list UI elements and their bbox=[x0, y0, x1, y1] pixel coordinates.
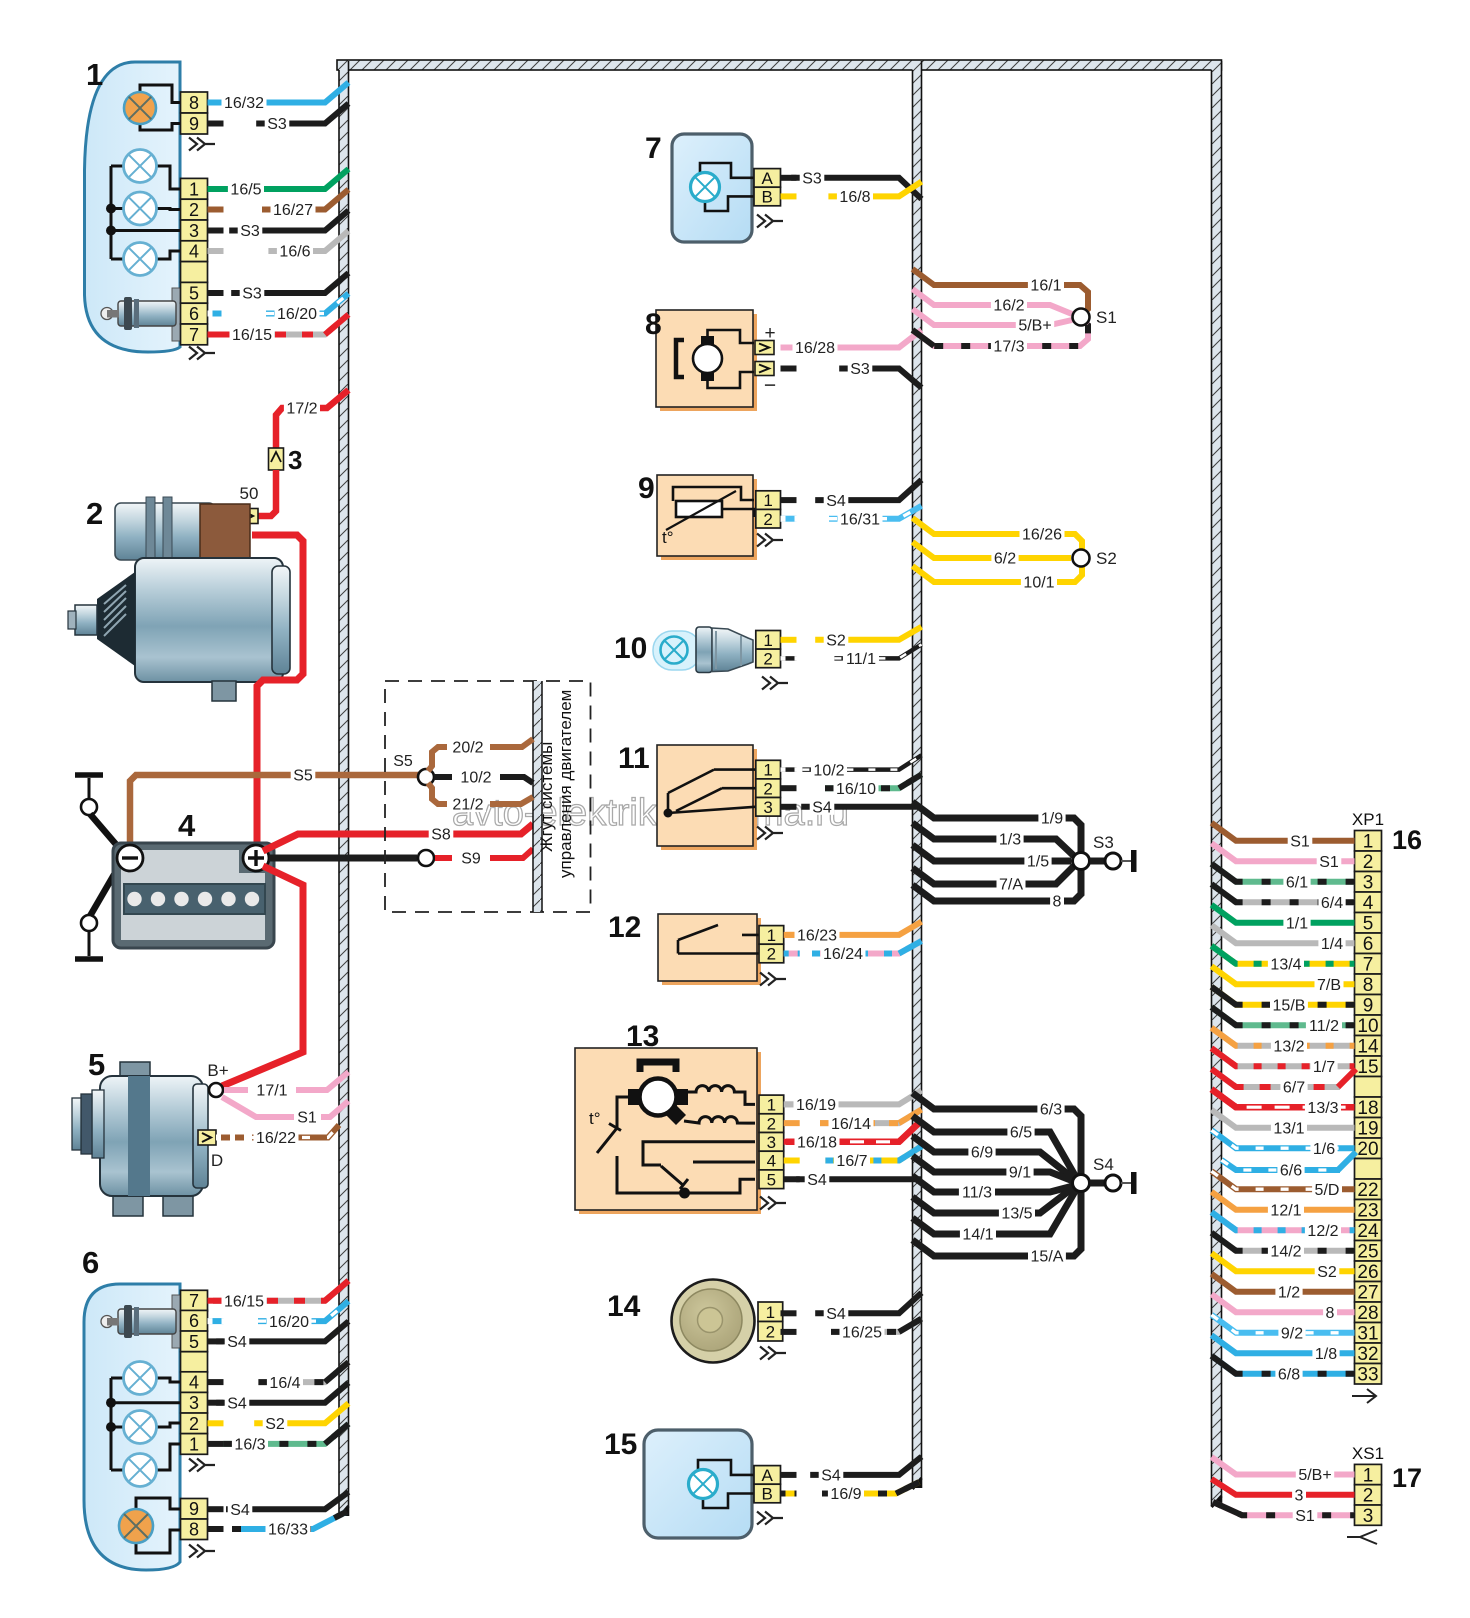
svg-text:S1: S1 bbox=[297, 1110, 317, 1127]
svg-text:9: 9 bbox=[189, 114, 199, 134]
svg-text:2: 2 bbox=[189, 1414, 199, 1434]
ground pin S4 bbox=[1121, 1172, 1137, 1194]
svg-text:17/1: 17/1 bbox=[256, 1083, 287, 1100]
wire S3 to ground bbox=[1090, 858, 1105, 865]
wire 7/B xp1-8 bbox=[1212, 966, 1355, 984]
tail lamp assembly 6 body bbox=[84, 1284, 180, 1570]
harness top bar bbox=[337, 60, 1222, 70]
motor symbol comp8 bbox=[676, 330, 754, 388]
wire 16/19 bbox=[785, 1090, 922, 1104]
wire 20/2 bbox=[428, 739, 533, 771]
label 1/6 xp1 bbox=[1310, 1138, 1337, 1158]
svg-text:A: A bbox=[762, 1466, 774, 1485]
svg-text:20/2: 20/2 bbox=[452, 740, 483, 757]
wire 13/5 bbox=[913, 1187, 1075, 1213]
svg-text:S2: S2 bbox=[1096, 549, 1117, 568]
wire S1 alt bbox=[222, 1097, 294, 1117]
wire 1/2 xp1-27 bbox=[1212, 1274, 1355, 1292]
wire S3 c7 bbox=[791, 178, 921, 199]
svg-text:1/6: 1/6 bbox=[1313, 1141, 1335, 1158]
label 16/7 bbox=[834, 1151, 870, 1171]
svg-text:7: 7 bbox=[1363, 955, 1374, 976]
switch symbol comp13 bbox=[589, 1097, 755, 1199]
svg-text:S1: S1 bbox=[1096, 308, 1117, 327]
label S1 xs1 bbox=[1293, 1505, 1318, 1525]
wire S3 pin3 bbox=[229, 211, 348, 231]
svg-text:6: 6 bbox=[82, 1245, 99, 1280]
label 14/2 xp1 bbox=[1268, 1241, 1304, 1261]
wire S1 xp1-1 bbox=[1212, 823, 1355, 841]
wire stub S3 c7 bbox=[781, 175, 797, 181]
svg-text:6/4: 6/4 bbox=[1321, 895, 1343, 912]
svg-text:5/B+: 5/B+ bbox=[1018, 318, 1051, 335]
label 6/9 bbox=[968, 1142, 995, 1162]
lamp 4 comp1 bbox=[124, 243, 157, 276]
switch 12 shadow bbox=[662, 918, 761, 985]
svg-text:4: 4 bbox=[189, 242, 199, 262]
svg-text:12/1: 12/1 bbox=[1270, 1202, 1301, 1219]
svg-text:S2: S2 bbox=[265, 1416, 285, 1433]
label 15/B xp1 bbox=[1270, 995, 1308, 1015]
connector pins comp6 main group bbox=[181, 1290, 208, 1454]
wire S4 c6p3 bbox=[216, 1383, 348, 1403]
label S4 c6p9 bbox=[228, 1499, 253, 1519]
label 16/10 bbox=[834, 778, 879, 798]
svg-text:16/33: 16/33 bbox=[268, 1522, 308, 1539]
wire S3 pin5 bbox=[231, 273, 348, 293]
svg-text:17: 17 bbox=[1392, 1463, 1422, 1493]
wire stub 16/22 bbox=[216, 1135, 246, 1141]
label 6/3 bbox=[1037, 1099, 1064, 1119]
wire stub S2 c10 bbox=[781, 637, 797, 643]
svg-text:15/A: 15/A bbox=[1031, 1249, 1064, 1266]
wire 17/2 red riser bbox=[276, 408, 290, 450]
wire 13/3 xp1-18 bbox=[1212, 1089, 1355, 1107]
svg-text:7/B: 7/B bbox=[1317, 977, 1341, 994]
label 1/1 xp1 bbox=[1283, 913, 1310, 933]
connector pins comp1 main group bbox=[181, 178, 208, 345]
lamp 2 comp6 bbox=[124, 1411, 157, 1444]
svg-text:27: 27 bbox=[1357, 1283, 1378, 1304]
wire stub S3 c8 bbox=[781, 366, 797, 372]
junction dots comp1 bbox=[106, 204, 116, 214]
svg-text:16/32: 16/32 bbox=[224, 95, 264, 112]
svg-text:23: 23 bbox=[1357, 1201, 1378, 1222]
label 8 s3 bbox=[1050, 891, 1064, 911]
svg-text:3: 3 bbox=[767, 1133, 776, 1152]
svg-text:1/2: 1/2 bbox=[1278, 1284, 1300, 1301]
resistor symbol comp9 bbox=[662, 487, 754, 547]
svg-text:S3: S3 bbox=[240, 223, 260, 240]
svg-text:S9: S9 bbox=[461, 851, 481, 868]
starter 2 bbox=[68, 497, 290, 701]
wire stub 16/25 bbox=[781, 1329, 797, 1335]
svg-text:16/1: 16/1 bbox=[1030, 278, 1061, 295]
svg-text:8: 8 bbox=[189, 93, 199, 113]
svg-text:16/20: 16/20 bbox=[269, 1314, 309, 1331]
label S3 c8 bbox=[848, 359, 873, 379]
label 6/8 xp1 bbox=[1275, 1364, 1302, 1384]
node S9 bbox=[418, 850, 434, 866]
sensor 9 shadow bbox=[661, 479, 757, 560]
svg-text:6/7: 6/7 bbox=[1283, 1080, 1305, 1097]
svg-text:14: 14 bbox=[1357, 1037, 1379, 1058]
label 10/2 c11 bbox=[811, 760, 847, 780]
wire stub S4 c14 bbox=[781, 1310, 797, 1316]
svg-text:16/24: 16/24 bbox=[823, 946, 863, 963]
svg-text:S3: S3 bbox=[1093, 833, 1114, 852]
svg-text:3: 3 bbox=[763, 798, 772, 817]
label 13/1 xp1 bbox=[1271, 1118, 1307, 1138]
switch 12 body bbox=[658, 914, 757, 981]
wire stub S4 c6p5 bbox=[208, 1338, 224, 1344]
wire red battery plus to alternator bbox=[222, 866, 303, 1086]
wire 5/B+ bbox=[913, 309, 1073, 325]
wire 1/7 xp1-15 bbox=[1212, 1048, 1355, 1066]
wire 6/6 diagonal bbox=[1338, 1152, 1356, 1170]
svg-text:6/9: 6/9 bbox=[971, 1145, 993, 1162]
wire 6/5 bbox=[913, 1116, 1078, 1179]
wire 11/3 bbox=[913, 1176, 1074, 1192]
svg-text:5: 5 bbox=[189, 283, 199, 303]
wire 16/5 pin1 bbox=[219, 169, 348, 189]
svg-text:1: 1 bbox=[1363, 832, 1374, 853]
wire 6/7 diagonal bbox=[1338, 1069, 1356, 1087]
wire 16/28 bbox=[784, 330, 922, 348]
svg-text:16/14: 16/14 bbox=[831, 1116, 871, 1133]
label 16/27 pin2 bbox=[271, 200, 316, 220]
label 13/3 xp1 bbox=[1305, 1097, 1341, 1117]
svg-text:18: 18 bbox=[1357, 1098, 1378, 1119]
label 16/4 c6 bbox=[267, 1372, 303, 1392]
svg-text:16/2: 16/2 bbox=[993, 298, 1024, 315]
wire lamp15 internal bbox=[698, 1460, 754, 1475]
svg-text:2: 2 bbox=[767, 945, 776, 964]
svg-text:16/19: 16/19 bbox=[796, 1097, 836, 1114]
svg-text:3: 3 bbox=[1363, 873, 1374, 894]
wire stub S4 c15 bbox=[781, 1472, 797, 1478]
label S2 c6 bbox=[263, 1413, 288, 1433]
wire S1 xs1 bbox=[1213, 1502, 1355, 1515]
label 16/9 bbox=[828, 1484, 864, 1504]
lamp unit 15 body bbox=[644, 1430, 752, 1538]
wire 16/20 pin6 bbox=[266, 294, 349, 314]
svg-text:S2: S2 bbox=[1317, 1264, 1337, 1281]
svg-text:7: 7 bbox=[645, 132, 662, 165]
svg-text:7/A: 7/A bbox=[999, 877, 1023, 894]
connector XS1 cells bbox=[1355, 1464, 1382, 1527]
svg-text:16/26: 16/26 bbox=[1022, 527, 1062, 544]
label 16/6 pin4 bbox=[277, 241, 313, 261]
wire stub S4 c6p9 bbox=[208, 1506, 224, 1512]
svg-text:6: 6 bbox=[189, 304, 199, 324]
connector pins comp11 bbox=[756, 760, 781, 817]
svg-text:16/4: 16/4 bbox=[269, 1375, 300, 1392]
lamp comp15 bbox=[689, 1470, 718, 1499]
label 1/3 bbox=[996, 829, 1023, 849]
svg-text:S3: S3 bbox=[802, 171, 822, 188]
label 16/5 pin1 bbox=[228, 179, 264, 199]
label 17/3 bbox=[991, 336, 1027, 356]
label 12/2 xp1 bbox=[1305, 1220, 1341, 1240]
wire stub 16/8 c7 bbox=[781, 193, 797, 199]
wire S8 red from battery plus bbox=[263, 824, 533, 851]
svg-text:2: 2 bbox=[766, 1322, 775, 1341]
wire battery minus to grounds bbox=[90, 814, 126, 856]
alternator D terminal bbox=[198, 1130, 216, 1145]
svg-text:24: 24 bbox=[1357, 1221, 1379, 1242]
svg-text:3: 3 bbox=[288, 445, 302, 475]
svg-text:Жгут системы: Жгут системы bbox=[537, 742, 556, 852]
wire 16/2 bbox=[913, 289, 1073, 314]
wire stub 16/31 bbox=[781, 516, 797, 522]
label 16/19 bbox=[794, 1095, 839, 1115]
svg-text:S5: S5 bbox=[393, 753, 413, 770]
svg-text:1: 1 bbox=[763, 491, 772, 510]
connector chevron comp6 bottom bbox=[189, 1545, 215, 1558]
svg-text:S2: S2 bbox=[826, 633, 846, 650]
svg-text:26: 26 bbox=[1357, 1262, 1378, 1283]
label 6/6 xp1 bbox=[1277, 1160, 1304, 1180]
svg-text:S4: S4 bbox=[821, 1468, 841, 1485]
svg-text:5/D: 5/D bbox=[1315, 1182, 1340, 1199]
wire 16/24 bbox=[812, 941, 922, 954]
svg-text:1: 1 bbox=[766, 1303, 775, 1322]
label 20/2 bbox=[450, 737, 486, 757]
wire S4 c14 bbox=[815, 1293, 921, 1314]
wire starter to battery plus (red) bbox=[252, 535, 303, 845]
label 1/8 xp1 bbox=[1312, 1343, 1339, 1363]
wire 16/6 pin4 bbox=[268, 231, 348, 251]
label 16/1 bbox=[1028, 275, 1064, 295]
svg-text:16/23: 16/23 bbox=[797, 928, 837, 945]
turn lamp 1 (orange) bbox=[124, 92, 156, 124]
wire 16/32 pin8 bbox=[213, 83, 349, 103]
switch 11 body bbox=[657, 745, 753, 846]
label S4 c15 bbox=[819, 1465, 844, 1485]
wire 10/2 engine bbox=[434, 777, 533, 783]
svg-text:16/20: 16/20 bbox=[277, 306, 317, 323]
label S4 c13 bbox=[805, 1169, 830, 1189]
alternator B+ terminal bbox=[209, 1083, 223, 1097]
wire 17/3 bbox=[913, 320, 1089, 346]
connector pins comp14 bbox=[758, 1302, 783, 1341]
svg-text:6/6: 6/6 bbox=[1280, 1163, 1302, 1180]
lamp 3 comp1 bbox=[124, 192, 157, 225]
svg-text:S4: S4 bbox=[826, 493, 846, 510]
svg-text:6: 6 bbox=[1363, 934, 1374, 955]
wire 16/15 c6 bbox=[213, 1281, 349, 1301]
wire stub 16/6 pin4 bbox=[208, 248, 224, 254]
wire 6/7 xp1 bbox=[1212, 1069, 1341, 1087]
wire 16/23 bbox=[786, 922, 922, 935]
svg-text:15/B: 15/B bbox=[1273, 997, 1306, 1014]
wire 8 xp1-28 bbox=[1212, 1294, 1355, 1312]
junction dots comp6 bbox=[106, 1398, 116, 1408]
label 6/7 xp1 bbox=[1280, 1077, 1307, 1097]
svg-text:4: 4 bbox=[767, 1152, 776, 1171]
label 13/2 xp1 bbox=[1271, 1036, 1307, 1056]
svg-text:14/1: 14/1 bbox=[962, 1227, 993, 1244]
svg-text:1/9: 1/9 bbox=[1041, 811, 1063, 828]
connector chevron comp6 mid bbox=[189, 1459, 215, 1472]
label 7/B xp1 bbox=[1315, 974, 1344, 994]
svg-text:S1: S1 bbox=[1295, 1508, 1315, 1525]
svg-text:16/8: 16/8 bbox=[839, 189, 870, 206]
svg-text:6: 6 bbox=[189, 1311, 199, 1331]
svg-text:13: 13 bbox=[626, 1020, 659, 1053]
wire 6/3 bbox=[913, 1093, 1082, 1174]
wire stub S3 pin5 bbox=[208, 290, 224, 296]
wire 1/3 bbox=[913, 823, 1075, 856]
svg-text:3: 3 bbox=[189, 1393, 199, 1413]
svg-text:2: 2 bbox=[1363, 1486, 1374, 1507]
wire lamp1 internal loop top bbox=[140, 85, 181, 103]
wire stub 16/19 bbox=[784, 1101, 800, 1107]
wire 16/31 bbox=[829, 506, 922, 519]
label 16/15 c6 bbox=[222, 1291, 267, 1311]
connector chevron comp14 bbox=[760, 1347, 786, 1360]
svg-text:14/2: 14/2 bbox=[1270, 1243, 1301, 1260]
wire S3 c8 bbox=[839, 369, 921, 388]
wire lamp bus comp1 bbox=[110, 166, 113, 259]
wire stub 16/5 pin1 bbox=[208, 186, 224, 192]
wire stub 16/23 bbox=[784, 932, 800, 938]
wire stub S3 pin9 bbox=[208, 121, 224, 127]
fuse 3 bbox=[269, 448, 284, 470]
label 10/2 engine bbox=[458, 767, 494, 787]
node S2 bbox=[1073, 550, 1090, 567]
label 16/8 c7 bbox=[837, 187, 873, 207]
battery plus terminal bbox=[243, 845, 269, 871]
label 16/23 bbox=[795, 925, 840, 945]
svg-text:1: 1 bbox=[767, 1096, 776, 1115]
wire S4 c6p9 bbox=[226, 1492, 349, 1509]
label 13/4 xp1 bbox=[1268, 954, 1304, 974]
alternator 5 bbox=[72, 1062, 208, 1216]
svg-text:11: 11 bbox=[618, 742, 650, 775]
wire stub 16/20 pin6 bbox=[208, 311, 224, 317]
label 6/2 bbox=[991, 548, 1018, 568]
wire 16/33 bbox=[232, 1512, 346, 1529]
svg-text:1: 1 bbox=[767, 926, 776, 945]
harness middle vertical bar bbox=[913, 61, 922, 1489]
label 3 xs1 bbox=[1292, 1485, 1306, 1505]
label 7/A bbox=[997, 874, 1026, 894]
svg-text:2: 2 bbox=[763, 779, 772, 798]
label 9/2 xp1 bbox=[1278, 1323, 1305, 1343]
svg-text:13/2: 13/2 bbox=[1273, 1038, 1304, 1055]
lamp comp7 bbox=[691, 173, 720, 202]
svg-text:11/1: 11/1 bbox=[846, 651, 876, 668]
wire S5 brown from battery minus bbox=[130, 775, 419, 848]
label 5/B+ bbox=[1016, 315, 1054, 335]
wire stub 16/10 bbox=[781, 785, 797, 791]
svg-text:5/B+: 5/B+ bbox=[1298, 1467, 1331, 1484]
svg-text:XS1: XS1 bbox=[1352, 1444, 1384, 1463]
label S2 xp1 bbox=[1315, 1261, 1340, 1281]
svg-text:S4: S4 bbox=[227, 1334, 247, 1351]
connector pins comp15 bbox=[754, 1466, 781, 1504]
wire S1 xp1-2 bbox=[1212, 843, 1355, 861]
motor symbol comp13 bbox=[628, 1062, 688, 1125]
wire S4 c13 bbox=[796, 1176, 921, 1182]
label 5/D xp1 bbox=[1312, 1179, 1342, 1199]
svg-text:avto-elektrika-shema.ru: avto-elektrika-shema.ru bbox=[452, 792, 849, 834]
svg-text:10/1: 10/1 bbox=[1023, 575, 1054, 592]
svg-text:9: 9 bbox=[1363, 996, 1374, 1017]
battery 4 body bbox=[113, 843, 274, 948]
svg-text:1/4: 1/4 bbox=[1321, 936, 1343, 953]
svg-text:16/27: 16/27 bbox=[273, 202, 313, 219]
wire stub 16/20 c6 bbox=[208, 1318, 224, 1324]
wire 14/2 xp1-25 bbox=[1212, 1233, 1355, 1251]
wire 6/6 xp1 bbox=[1222, 1160, 1341, 1170]
wire 16/25 bbox=[831, 1319, 922, 1332]
svg-text:2: 2 bbox=[86, 496, 103, 531]
connector pins comp12 bbox=[759, 926, 784, 964]
node S3 bbox=[1073, 853, 1090, 870]
headlamp assembly 1 body bbox=[85, 62, 181, 352]
label 16/18 bbox=[795, 1132, 840, 1152]
wire stub 16/4 c6 bbox=[208, 1379, 224, 1385]
lamp 2 comp1 bbox=[124, 150, 157, 183]
svg-text:S1: S1 bbox=[1319, 854, 1339, 871]
terminal 50 bbox=[240, 509, 258, 524]
arrow below XP1 bbox=[1352, 1389, 1376, 1403]
svg-text:28: 28 bbox=[1357, 1303, 1378, 1324]
svg-text:21/2: 21/2 bbox=[452, 797, 483, 814]
turn lamp comp6 (orange) bbox=[119, 1509, 153, 1543]
label S4 c9 bbox=[824, 490, 849, 510]
ground symbol battery top bbox=[75, 775, 103, 815]
label 16/20 pin6 bbox=[275, 304, 320, 324]
connector pins comp10 bbox=[756, 631, 781, 669]
engine harness inner bar bbox=[533, 681, 542, 912]
svg-text:16/15: 16/15 bbox=[232, 327, 272, 344]
svg-text:50: 50 bbox=[240, 484, 259, 503]
svg-text:1: 1 bbox=[86, 57, 103, 92]
svg-text:B+: B+ bbox=[207, 1061, 228, 1080]
label 6/4 xp1 bbox=[1318, 892, 1345, 912]
wire lamp bus comp6 bbox=[110, 1378, 113, 1470]
wire 10/1 bbox=[913, 566, 1083, 582]
wire 1/6 xp1-20 bbox=[1212, 1130, 1355, 1148]
node S4 bbox=[1073, 1175, 1090, 1192]
svg-text:8: 8 bbox=[189, 1520, 199, 1540]
wire stub 16/33 bbox=[208, 1526, 224, 1532]
wire 5/D xp1-22 bbox=[1212, 1171, 1355, 1189]
svg-text:2: 2 bbox=[763, 650, 772, 669]
svg-text:S4: S4 bbox=[807, 1172, 827, 1189]
wire 9/2 xp1-31 bbox=[1212, 1315, 1355, 1333]
connector pins comp7 bbox=[754, 169, 781, 207]
switch symbol comp12 bbox=[678, 925, 759, 954]
wire S4 c15 bbox=[810, 1457, 921, 1475]
label 11/1 bbox=[843, 649, 879, 669]
svg-text:16/15: 16/15 bbox=[224, 1293, 264, 1310]
label 1/7 xp1 bbox=[1310, 1056, 1337, 1076]
harness right vertical bar bbox=[1212, 61, 1222, 1507]
svg-text:13/5: 13/5 bbox=[1001, 1206, 1032, 1223]
wire 16/26 bbox=[913, 518, 1083, 549]
svg-text:31: 31 bbox=[1357, 1324, 1378, 1345]
svg-text:1/5: 1/5 bbox=[1027, 854, 1049, 871]
label S4 c14 bbox=[824, 1303, 849, 1323]
svg-text:1/1: 1/1 bbox=[1286, 915, 1308, 932]
svg-text:13/4: 13/4 bbox=[1270, 956, 1301, 973]
svg-text:S8: S8 bbox=[431, 827, 451, 844]
